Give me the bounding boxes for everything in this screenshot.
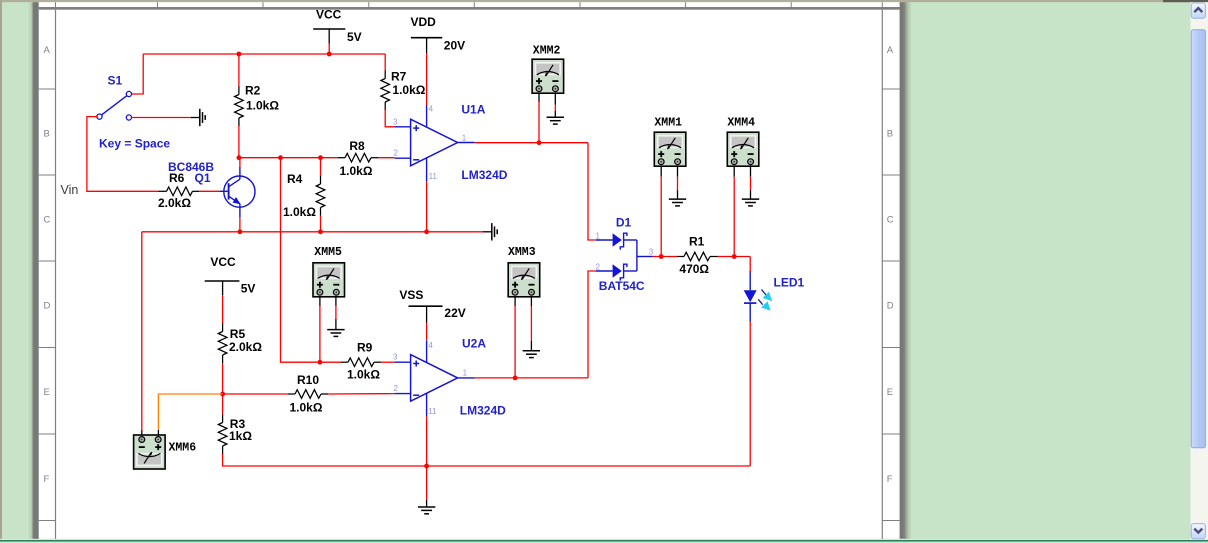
label LM324D (U2A) [460,403,506,417]
wire D1 pin3 to R1 [653,256,678,258]
svg-text:1.0kΩ: 1.0kΩ [246,99,279,113]
label R6 [169,171,185,185]
wire XMM4 minus lead [750,166,752,199]
svg-text:R2: R2 [245,84,261,98]
value R4 1.0kΩ [283,205,316,219]
svg-text:Key = Space: Key = Space [99,136,170,150]
wire R8 to U1A pin2 [378,157,395,159]
wire U2A output [475,377,588,379]
svg-text:XMM1: XMM1 [654,117,682,130]
svg-text:D: D [44,301,51,312]
pin 1 label U2A [463,369,468,378]
svg-text:VCC: VCC [316,8,342,22]
wire S1 riser [132,54,144,94]
resistor R4 [316,176,325,216]
ground at XMM5 [327,330,344,337]
value R1 470Ω [679,262,709,276]
multimeter XMM3 [508,263,540,297]
svg-text:2.0kΩ: 2.0kΩ [229,340,262,354]
value R8 1.0kΩ [340,164,373,178]
svg-text:11: 11 [429,172,438,181]
svg-text:U1A: U1A [461,102,485,116]
pin 3 label U2A [393,353,398,362]
pin 1 label U1A [462,134,467,143]
pin 4 label U1A [429,105,434,114]
junction XMM5 plus [318,360,323,365]
wire bottom rail [223,465,751,467]
label VSS [399,288,423,302]
label R4 [287,172,303,186]
svg-text:R4: R4 [287,172,303,186]
resistor R6 [159,187,200,196]
svg-text:Q1: Q1 [195,171,211,185]
resistor R2 [235,87,244,127]
label XMM5 [314,246,342,259]
svg-text:A: A [887,45,894,56]
wire orange divider to XMM6 [158,394,222,437]
svg-text:C: C [887,215,894,226]
multimeter XMM2 [532,59,564,93]
wire S1 ground stub [132,117,200,119]
wire R4 bottom lead [320,216,322,232]
svg-text:1: 1 [596,232,601,241]
svg-text:1.0kΩ: 1.0kΩ [347,368,380,382]
value R10 1.0kΩ [290,401,323,415]
label R9 [357,340,373,354]
label LM324D (U1A) [461,168,507,182]
svg-text:XMM6: XMM6 [169,442,197,455]
value R2 1.0kΩ [246,99,279,113]
resistor R8 [338,153,378,162]
ground at S1 [200,109,205,126]
label XMM2 [533,44,561,57]
resistor R3 [218,394,227,454]
label 5V (lower) [241,282,256,296]
svg-text:S1: S1 [108,74,123,88]
svg-text:LED1: LED1 [774,276,805,290]
wire XMM2 plus lead [538,93,540,142]
op-amp U1A [395,105,475,181]
svg-text:F: F [44,474,50,485]
pin 2 label D1 [596,262,601,271]
wire R9 to U2A pin3 [381,361,395,363]
value R9 1.0kΩ [347,368,380,382]
svg-text:R8: R8 [349,139,365,153]
wire VCC stem [328,44,330,55]
wire R1 to LED riser [718,256,751,258]
wire R2 bottom lead [238,126,240,158]
label R2 [245,84,261,98]
wire top rail VCC [143,53,385,55]
label R7 [391,69,407,83]
transistor Q1 [220,167,255,217]
svg-text:1: 1 [462,134,467,143]
multimeter XMM6 [134,435,166,469]
svg-text:5V: 5V [347,30,362,44]
svg-text:C: C [44,215,51,226]
label R5 [230,327,246,341]
svg-text:1: 1 [463,369,468,378]
svg-text:R5: R5 [230,327,246,341]
label R3 [230,417,246,431]
junction XMM1 plus [659,254,664,259]
junction node B [278,155,283,160]
wire XMM3 plus lead [514,297,516,378]
svg-text:A: A [44,45,51,56]
svg-text:5V: 5V [241,282,256,296]
junction VCC/top rail [327,52,332,57]
pin 3 label U1A [393,117,398,126]
junction U1A output/XMM2 [537,140,542,145]
value R3 1kΩ [229,429,252,443]
svg-text:R10: R10 [297,373,319,387]
junction bottom rail ground [424,464,429,469]
label XMM1 [654,117,682,130]
switch S1 [95,91,132,120]
wire VDD to U1A pin4 [426,53,428,105]
svg-text:470Ω: 470Ω [679,262,709,276]
wire Vin net [87,117,159,192]
wire XMM1 plus lead [660,166,662,256]
wire U1A pin11 down [426,181,428,232]
label XMM3 [508,246,536,259]
wire XMM1 minus lead [677,166,679,199]
value R7 1.0kΩ [392,83,425,97]
multimeter XMM4 [727,132,759,166]
label 22V [444,306,465,320]
svg-text:E: E [887,387,893,398]
svg-text:XMM2: XMM2 [533,44,561,57]
wire XMM2 minus lead [554,93,556,117]
svg-text:XMM5: XMM5 [314,246,342,259]
label XMM4 [727,117,755,130]
junction U1A pin11 [424,229,429,234]
value R5 2.0kΩ [229,340,262,354]
diode D1 (BAT54C dual) [596,233,653,280]
svg-text:2: 2 [394,384,399,393]
svg-text:1.0kΩ: 1.0kΩ [392,83,425,97]
svg-text:11: 11 [428,407,437,416]
label D1 [616,215,632,229]
svg-text:Vin: Vin [61,183,79,197]
label VCC (lower) [210,255,236,269]
label Q1 [195,171,211,185]
svg-text:U2A: U2A [462,337,486,351]
wire LED1 anode [749,257,751,272]
wire Q1 emitter [239,217,241,232]
wire U2A output to D1 pin2 [588,271,596,378]
resistor R5 [218,324,227,364]
LED LED1 [744,271,773,322]
ground at XMM3 [523,351,540,358]
svg-text:LM324D: LM324D [461,168,507,182]
wire R7 to U1A pin3 [385,110,394,127]
svg-text:BAT54C: BAT54C [599,279,645,293]
svg-text:XMM4: XMM4 [727,117,755,130]
pin 2 label U1A [394,149,399,158]
wire emitter row [142,231,492,233]
svg-text:LM324D: LM324D [460,403,506,417]
multimeter XMM5 [313,263,345,297]
junction XMM4 plus [732,254,737,259]
wire R7 top lead [384,54,386,71]
svg-text:3: 3 [649,248,654,257]
label VDD [411,15,437,29]
wire U1A output to D1 pin1 [588,143,596,240]
wire ground stem [426,466,428,507]
power VSS symbol [409,306,443,322]
svg-text:22V: 22V [444,306,465,320]
wire R2 top lead [238,54,240,87]
label 20V [444,38,465,52]
label R1 [689,235,705,249]
label VCC (top) [316,8,342,22]
label R8 [349,139,365,153]
pin 11 label U1A [429,172,438,181]
power VCC (lower) symbol [205,281,240,295]
junction U2A output/XMM3 [513,376,518,381]
ground at XMM4 [742,199,759,206]
svg-text:B: B [887,129,893,140]
svg-text:3: 3 [393,117,398,126]
label XMM6 [169,442,197,455]
svg-text:VCC: VCC [210,255,236,269]
wire XMM3 minus lead [530,297,532,351]
svg-text:R7: R7 [391,69,407,83]
wire XMM5 minus lead [335,297,337,330]
resistor R9 [341,358,381,367]
svg-text:R1: R1 [689,235,705,249]
svg-text:1kΩ: 1kΩ [229,429,252,443]
wire XMM4 plus lead [733,166,735,256]
wire node row to R8 [239,157,338,159]
wire U2A pin11 down [426,416,428,466]
wire R5 bottom lead [222,363,224,394]
power VDD symbol [411,38,442,54]
resistor R1 [677,252,718,261]
wire R4 top lead [320,158,322,176]
value R6 2.0kΩ [158,196,191,210]
label LED1 [774,276,805,290]
label U2A [462,337,486,351]
resistor R10 [288,390,328,399]
svg-text:2.0kΩ: 2.0kΩ [158,196,191,210]
junction R5/R3 divider [220,392,225,397]
label BC846B [168,160,214,174]
wire node B to R9 row [281,158,342,363]
svg-text:VSS: VSS [399,288,423,302]
wire VSS to U2A pin4 [426,323,428,341]
svg-text:20V: 20V [444,38,465,52]
label BAT54C [599,279,645,293]
ground at emitter row [492,223,497,240]
svg-text:E: E [44,387,50,398]
pin 11 label U2A [428,407,437,416]
pin 3 label D1 [649,248,654,257]
wire R3 to bottom rail [222,454,224,466]
wire Q1 collector [239,158,241,167]
junction R4 bottom [318,229,323,234]
power VCC (top) symbol [313,29,345,44]
svg-text:1.0kΩ: 1.0kΩ [283,205,316,219]
junction R2/Q1 collector [237,155,242,160]
label 5V (top) [347,30,362,44]
svg-text:XMM3: XMM3 [508,246,536,259]
svg-text:4: 4 [429,105,434,114]
svg-text:B: B [44,129,50,140]
wire VCC to R5 [222,295,224,324]
pin 1 label D1 [596,232,601,241]
wire R6 to Q1 base [199,190,220,192]
junction Q1 emitter [238,229,243,234]
svg-text:2: 2 [394,149,399,158]
pin 2 label U2A [394,384,399,393]
resistor R7 [381,71,390,111]
svg-text:1.0kΩ: 1.0kΩ [340,164,373,178]
wire LED1 cathode to bottom rail [749,322,751,467]
multimeter XMM1 [654,132,686,166]
label R10 [297,373,319,387]
label U1A [461,102,485,116]
ground at XMM2 [547,117,564,124]
op-amp U2A [395,340,475,416]
label S1 [108,74,123,88]
svg-text:F: F [887,474,893,485]
label Key = Space [99,136,170,150]
svg-text:2: 2 [596,262,601,271]
svg-text:R9: R9 [357,340,373,354]
label Vin [61,183,79,197]
svg-text:3: 3 [393,353,398,362]
wire divider to R10 [223,393,288,395]
wire U1A output [475,142,588,144]
wire emitter row to XMM6 [141,232,143,437]
svg-text:VDD: VDD [411,15,437,29]
ground at bottom rail [418,507,435,514]
svg-text:D1: D1 [616,215,632,229]
svg-text:1.0kΩ: 1.0kΩ [290,401,323,415]
svg-text:D: D [887,301,894,312]
svg-text:4: 4 [428,341,433,350]
wire R10 to U2A pin2 [328,393,395,395]
ground at XMM1 [669,199,686,206]
wire XMM5 plus lead [319,297,321,362]
pin 4 label U2A [428,341,433,350]
junction R4 top [318,155,323,160]
junction R2 top [237,52,242,57]
